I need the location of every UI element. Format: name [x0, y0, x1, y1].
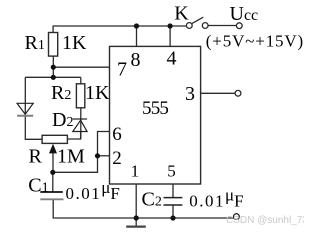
svg-text:(+5V~+15V): (+5V~+15V): [206, 31, 304, 50]
svg-text:K: K: [174, 2, 189, 24]
svg-text:CSDN @sunhl_73: CSDN @sunhl_73: [226, 215, 304, 226]
svg-text:R1: R1: [25, 32, 45, 54]
svg-text:2: 2: [112, 148, 122, 169]
svg-text:C1: C1: [28, 175, 48, 197]
svg-text:D2: D2: [52, 109, 73, 131]
svg-text:1K: 1K: [62, 32, 87, 54]
svg-text:1K: 1K: [85, 82, 110, 104]
svg-text:R: R: [29, 145, 43, 167]
svg-text:3: 3: [185, 83, 195, 105]
svg-text:C2: C2: [142, 189, 162, 211]
svg-text:Ucc: Ucc: [230, 3, 259, 25]
svg-text:5: 5: [167, 162, 176, 181]
svg-text:7: 7: [117, 59, 127, 81]
svg-text:4: 4: [167, 48, 177, 70]
svg-text:6: 6: [112, 124, 122, 145]
svg-text:555: 555: [142, 98, 168, 119]
svg-text:0.01μF: 0.01μF: [189, 185, 245, 210]
svg-text:1M: 1M: [57, 145, 85, 167]
svg-text:1: 1: [131, 162, 140, 181]
svg-text:8: 8: [131, 49, 141, 71]
svg-text:R2: R2: [51, 82, 71, 104]
